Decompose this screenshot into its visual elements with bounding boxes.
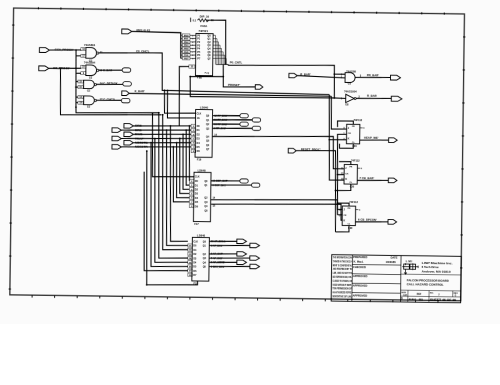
svg-text:7 CB_BAR': 7 CB_BAR' bbox=[359, 176, 374, 180]
wire TRAP' to buffer U3 bbox=[121, 138, 191, 140]
node NDESTR input bbox=[112, 145, 149, 150]
node DRB input bbox=[112, 128, 143, 133]
svg-text:APPROVED: APPROVED bbox=[353, 274, 368, 278]
svg-text:IR41: IR41 bbox=[184, 37, 189, 40]
wire FF1 K input bbox=[329, 95, 348, 140]
svg-text:SHEET 46 OF 46: SHEET 46 OF 46 bbox=[430, 299, 457, 302]
wire FF1 output bbox=[360, 139, 389, 142]
svg-text:APPROVED: APPROVED bbox=[353, 293, 368, 297]
node U3 output connector 0 bbox=[240, 114, 248, 118]
wire bus line B2 bbox=[182, 134, 190, 189]
svg-text:IR43: IR43 bbox=[184, 44, 189, 47]
svg-text:K: K bbox=[345, 178, 347, 181]
wire U3 output 0 bbox=[213, 114, 240, 117]
node 6 CB_DPCON' connector bbox=[388, 220, 397, 225]
junction bus wrap corner bbox=[146, 284, 148, 286]
wire U3 output 3 bbox=[213, 128, 253, 129]
nand U2B 74AS804 bbox=[81, 61, 113, 80]
wire branch to U2D pin 18 bbox=[76, 96, 78, 98]
wire R_BAR' to U6 bbox=[297, 76, 345, 78]
svg-text:CK: CK bbox=[343, 215, 347, 217]
wire branch to U2A pin 12 bbox=[76, 55, 81, 57]
and U6 74AS08 bbox=[341, 69, 362, 85]
svg-text:REF: REF bbox=[417, 294, 422, 296]
wire GC0_PROC0' to U2A input bbox=[50, 49, 82, 52]
title block bbox=[331, 255, 461, 303]
wire bus line A5 bbox=[149, 143, 189, 267]
flip-flop FF1 74F112 bbox=[343, 118, 365, 148]
title block drawing title bbox=[407, 278, 450, 287]
node 7 CB_BAR' connector bbox=[388, 178, 397, 183]
node HEAP_WE' connector bbox=[389, 138, 398, 143]
junction U1 gnd b bbox=[199, 76, 201, 78]
wire bus line A0 bbox=[169, 126, 189, 242]
svg-text:8 AF_OUT': 8 AF_OUT' bbox=[211, 253, 224, 256]
wire bus line B1 bbox=[185, 130, 190, 185]
junction bus wrap top bbox=[146, 150, 148, 152]
svg-text:APPROVED: APPROVED bbox=[353, 284, 368, 288]
wire U3 clock input bbox=[164, 90, 196, 113]
wire bus line A3 bbox=[157, 113, 190, 259]
junction U1 gnd a bbox=[189, 76, 191, 78]
node GC0_PROC0' bbox=[39, 47, 73, 52]
wire branch to U2C pin 15 bbox=[76, 80, 78, 82]
wire U2C output bbox=[96, 83, 123, 86]
wire RP1 to comparator enable bbox=[206, 20, 227, 65]
wire FF1 preset loop bbox=[337, 121, 353, 127]
node U5 output connector 3 bbox=[250, 256, 260, 261]
wire DRB to buffer U3 bbox=[133, 125, 191, 127]
svg-text:7 AF_BK2': 7 AF_BK2' bbox=[211, 257, 223, 260]
wire C0_CHC'L from U2A to bus bbox=[98, 52, 329, 95]
svg-text:6: 6 bbox=[192, 48, 193, 50]
svg-text:D: D bbox=[401, 296, 403, 300]
wire long run from gate column to bus (upper) bbox=[76, 103, 159, 114]
junction at CC_PROC0 wire bbox=[60, 67, 62, 69]
svg-text:F16: F16 bbox=[197, 158, 202, 162]
svg-text:R_BAR: R_BAR bbox=[367, 94, 377, 98]
svg-text:K: K bbox=[343, 219, 345, 222]
flip-flop FF3 74F112 bbox=[339, 200, 361, 230]
wire U3 pin14 to FF2 bbox=[212, 135, 344, 169]
wire clock chain bbox=[336, 134, 346, 215]
wire bus line A1 bbox=[165, 130, 189, 246]
wire branch to U2B pin 9 bbox=[76, 72, 81, 74]
svg-text:11 RF_BK1': 11 RF_BK1' bbox=[214, 119, 228, 122]
node TRAP' input bbox=[112, 136, 144, 141]
wire U5 output 4 bbox=[209, 261, 237, 264]
junction bus B5 bbox=[172, 146, 174, 148]
svg-text:6 AF_WERD': 6 AF_WERD' bbox=[211, 261, 226, 264]
inverter U7 74AS1004 bbox=[341, 89, 361, 107]
wire FF2 output bbox=[357, 179, 388, 182]
wire CC_PROC0' to U2B input bbox=[49, 67, 81, 70]
junction bus A5 bbox=[150, 142, 152, 144]
wire FF3 output bbox=[356, 220, 388, 223]
svg-text:0.1: 0.1 bbox=[193, 18, 197, 22]
nand U2A 74AS804 bbox=[81, 43, 104, 62]
wire U3 output 1 bbox=[213, 119, 253, 120]
node PROSET' connector bbox=[255, 85, 263, 89]
svg-text:DIP_16: DIP_16 bbox=[200, 15, 210, 19]
svg-text:P=Q: P=Q bbox=[205, 73, 210, 75]
svg-text:74F112: 74F112 bbox=[354, 118, 363, 122]
wire U5 output 2 bbox=[209, 253, 237, 256]
wire bus line A4 bbox=[153, 139, 189, 263]
svg-text:HEAP_WE': HEAP_WE' bbox=[364, 136, 379, 140]
wire FF1 clear loop bbox=[339, 144, 353, 149]
wire U2B output bbox=[99, 69, 122, 72]
wire U5 output 0 bbox=[209, 240, 237, 243]
svg-text:PROSET': PROSET' bbox=[228, 83, 241, 87]
node NDESTB input bbox=[124, 140, 149, 145]
svg-text:9: 9 bbox=[192, 58, 193, 60]
svg-text:L M I: L M I bbox=[406, 259, 413, 263]
wire FF3 clock stub bbox=[337, 214, 342, 216]
svg-text:74AS804: 74AS804 bbox=[84, 43, 96, 47]
node PR_BAR' connector bbox=[390, 75, 400, 80]
LMI logo bbox=[402, 259, 418, 274]
svg-text:10 RF_BK2': 10 RF_BK2' bbox=[214, 123, 228, 126]
svg-text:K: K bbox=[348, 138, 350, 141]
wire NDESTR to buffer U3 bbox=[121, 146, 191, 148]
svg-text:74AS804: 74AS804 bbox=[84, 61, 96, 65]
wire FF2 clear loop bbox=[336, 184, 351, 191]
junction bus A0 bbox=[170, 125, 172, 127]
node C_DETASK output connector bbox=[123, 82, 132, 87]
wire U5 output 5 bbox=[209, 266, 250, 267]
wire U2D output bbox=[96, 99, 121, 102]
node U5 output connector 1 bbox=[250, 243, 260, 248]
junction bus B1 bbox=[185, 129, 187, 131]
svg-text:8: 8 bbox=[192, 55, 193, 57]
svg-text:74F112: 74F112 bbox=[351, 158, 360, 162]
wire U4 output 1 bbox=[211, 185, 252, 186]
svg-text:10/30/86: 10/30/86 bbox=[386, 260, 397, 264]
wire U4 pin14 long output bbox=[211, 198, 343, 209]
wire FF2 clock stub bbox=[338, 174, 345, 176]
junction U4 clock tap bbox=[152, 112, 154, 114]
junction bus A2 bbox=[162, 114, 164, 116]
svg-text:REV: REV bbox=[454, 293, 459, 295]
svg-text:3: 3 bbox=[192, 39, 193, 41]
svg-text:P0_CNTL: P0_CNTL bbox=[230, 61, 243, 65]
buffer U3 LS640 bbox=[191, 105, 213, 161]
wire FF2 preset stub bbox=[339, 161, 351, 164]
wire bus wrap to U5 bottom bbox=[145, 151, 199, 285]
nand U2C bbox=[78, 80, 118, 93]
svg-text:IR47: IR47 bbox=[184, 57, 189, 60]
title block size cat no rev bbox=[401, 292, 459, 302]
node CC_PROC0' bbox=[39, 66, 71, 71]
svg-text:CK: CK bbox=[345, 174, 349, 176]
wire U1 gnd drop to run bbox=[189, 77, 192, 97]
svg-text:NO.: NO. bbox=[430, 292, 434, 294]
junction bus B2 bbox=[182, 133, 184, 135]
junction bus A3 bbox=[158, 112, 160, 114]
junction bus B4 bbox=[176, 142, 178, 144]
wire P0_CNTL collect bbox=[216, 63, 228, 65]
node R_BAR' input bbox=[289, 72, 311, 78]
wire U4 clock from bus bbox=[152, 113, 195, 177]
junction U3 clock tap bbox=[164, 89, 166, 91]
node U5 output connector 4 bbox=[237, 260, 247, 265]
junction lower gate column bbox=[75, 106, 77, 108]
wire U2D pin19 feed bbox=[76, 102, 78, 104]
wire U6 output bbox=[355, 76, 390, 79]
junction gate column bottom bbox=[75, 86, 77, 88]
junction clock FF3 pre bbox=[337, 202, 339, 204]
wire U5 output 1 bbox=[209, 245, 250, 246]
nand U2D bbox=[78, 96, 115, 109]
node U4 output connector 1 bbox=[251, 183, 259, 187]
wire U1 ground pins bbox=[190, 75, 223, 77]
node RESET_PROC' bbox=[288, 147, 321, 153]
svg-text:IR42: IR42 bbox=[184, 41, 189, 44]
wire U3 enable input bbox=[167, 90, 196, 118]
wire IR bus to comparator bbox=[131, 31, 181, 58]
junction bus A4 bbox=[154, 138, 156, 140]
wire U4 pin15 long output bbox=[211, 202, 343, 220]
svg-text:1G: 1G bbox=[197, 118, 200, 120]
svg-text:74F112: 74F112 bbox=[349, 200, 358, 204]
wire second long run to bus (lower) bbox=[60, 68, 162, 116]
resistor pack RP1 DIP_16 bbox=[190, 14, 214, 28]
wire U7 output bbox=[356, 97, 391, 100]
wire FF3 preset stub bbox=[338, 203, 350, 206]
wire U3 output 2 bbox=[213, 123, 240, 126]
svg-text:2: 2 bbox=[192, 35, 193, 37]
wire K_BAR' long run bbox=[129, 93, 331, 96]
node U5 output connector 2 bbox=[237, 252, 247, 257]
junction U1 gnd c bbox=[222, 76, 224, 78]
svg-text:74AS1004: 74AS1004 bbox=[344, 89, 357, 93]
svg-text:9 OBF_BK1': 9 OBF_BK1' bbox=[212, 184, 226, 187]
title block proprietary notice bbox=[332, 255, 352, 298]
wire DWB to buffer U3 bbox=[133, 134, 191, 136]
svg-text:Andover, MA 01810: Andover, MA 01810 bbox=[422, 269, 451, 273]
wire long run to U7 input bbox=[191, 96, 335, 98]
junction P0_CNTL tap bbox=[333, 73, 335, 75]
node R_BAR connector bbox=[391, 96, 402, 101]
svg-text:CALL HAZARD CONTROL: CALL HAZARD CONTROL bbox=[407, 282, 444, 286]
wire FF2 K input bbox=[329, 140, 345, 181]
title block signatures bbox=[353, 255, 398, 298]
svg-text:9 AF_BK1': 9 AF_BK1' bbox=[211, 244, 223, 247]
wire bus line B4 bbox=[176, 143, 190, 198]
junction FF1 K branch bbox=[328, 139, 330, 141]
node C_BAR output connector bbox=[122, 68, 131, 73]
node K_BAR' bbox=[122, 89, 145, 96]
node C_CHC'0 output connector bbox=[121, 98, 130, 103]
svg-text:IR44: IR44 bbox=[184, 47, 189, 50]
wire NDESTB to buffer U3 bbox=[133, 142, 191, 144]
svg-text:5: 5 bbox=[192, 45, 193, 47]
svg-text:CLK: CLK bbox=[193, 241, 198, 243]
svg-text:7: 7 bbox=[192, 52, 193, 54]
wire comparator output staircase bbox=[214, 35, 217, 64]
junction U3 enable tap bbox=[167, 90, 169, 92]
svg-text:12 RF_BK0': 12 RF_BK0' bbox=[214, 115, 228, 118]
svg-text:IR45: IR45 bbox=[184, 51, 189, 54]
svg-text:F17: F17 bbox=[194, 222, 199, 226]
svg-text:IR40: IR40 bbox=[184, 34, 189, 37]
svg-text:CAT.: CAT. bbox=[403, 293, 408, 296]
buffer U5 LS640 bbox=[187, 233, 209, 286]
svg-text:CLK: CLK bbox=[195, 176, 200, 178]
svg-text:SENTATIVE OF LMI.: SENTATIVE OF LMI. bbox=[332, 294, 351, 298]
junction bus B0 bbox=[188, 125, 190, 127]
wire RESET_PROC' run bbox=[295, 150, 336, 232]
svg-text:N/A: N/A bbox=[419, 298, 423, 301]
wire inverter input stub bbox=[334, 97, 346, 99]
svg-text:K_BAR': K_BAR' bbox=[134, 89, 145, 93]
wire U5 row 270.7 feed bbox=[143, 172, 189, 272]
svg-text:10 AF_BK0.1: 10 AF_BK0.1 bbox=[211, 240, 226, 243]
junction bus A1 bbox=[166, 129, 168, 131]
wire shared input vertical x=76 bbox=[75, 50, 76, 103]
wire bus line B3 bbox=[179, 138, 190, 193]
svg-text:LS640: LS640 bbox=[197, 233, 206, 237]
junction clock FF2 bbox=[337, 174, 339, 176]
svg-text:DATE: DATE bbox=[391, 256, 398, 260]
svg-text:C0_CHC'L: C0_CHC'L bbox=[136, 49, 150, 53]
junction inverter input bbox=[333, 97, 335, 99]
wire bus line A2 bbox=[161, 115, 190, 250]
svg-text:6 CB_DPCON': 6 CB_DPCON' bbox=[358, 218, 377, 222]
buffer U4 LS640 bbox=[189, 168, 211, 226]
node DRB input bbox=[124, 124, 143, 129]
svg-text:F43A: F43A bbox=[200, 24, 207, 28]
wire DRB to buffer U3 bbox=[121, 129, 191, 131]
flip-flop FF2 74F112 bbox=[341, 158, 363, 188]
wire FF1 J input bbox=[331, 96, 347, 129]
wire U1 left enable pin 10 bbox=[179, 65, 195, 126]
svg-text:IR46: IR46 bbox=[184, 54, 189, 57]
wire U2C pin16 feed bbox=[76, 86, 78, 88]
svg-text:5 BK0_WE1': 5 BK0_WE1' bbox=[211, 265, 225, 268]
node U3 output connector 1 bbox=[252, 118, 260, 122]
wire PROSET' net bbox=[223, 65, 256, 88]
node DWB input bbox=[124, 132, 143, 137]
wire FF3 clear loop bbox=[335, 225, 349, 232]
junction at CC_PROC0 branch bbox=[75, 67, 77, 69]
wire U5 output 3 bbox=[209, 258, 250, 259]
junction reset FF2 bbox=[335, 190, 337, 192]
wire bus line B0 bbox=[189, 126, 191, 181]
svg-text:CLK: CLK bbox=[197, 113, 202, 115]
svg-text:10 OBF_OUT': 10 OBF_OUT' bbox=[213, 180, 229, 183]
svg-text:SCALE: SCALE bbox=[409, 298, 417, 301]
wire P0_CNTL run to gates bbox=[228, 64, 335, 98]
svg-text:74F521: 74F521 bbox=[198, 29, 208, 33]
svg-text:9 RF_BK3': 9 RF_BK3' bbox=[214, 127, 226, 130]
junction bus B3 bbox=[179, 138, 181, 140]
svg-text:CHECKED: CHECKED bbox=[353, 265, 366, 269]
svg-text:PR_BAR': PR_BAR' bbox=[367, 73, 380, 77]
wire bus line B5 bbox=[173, 147, 190, 202]
junction on input vertical bbox=[75, 49, 77, 51]
svg-text:K. MacL: K. MacL bbox=[354, 260, 364, 264]
node U5 output connector 5 bbox=[250, 264, 260, 269]
node IR bus input bbox=[122, 28, 151, 34]
comparator U1 74F521 bbox=[180, 29, 226, 80]
node U4 output connector 0 bbox=[240, 179, 248, 183]
node U3 output connector 2 bbox=[240, 122, 248, 126]
node U3 output connector 3 bbox=[252, 126, 260, 130]
wire U6 input A tap bbox=[334, 73, 345, 75]
svg-text:CK: CK bbox=[348, 133, 352, 135]
title block company address bbox=[422, 261, 453, 274]
wire U4 output 0 bbox=[211, 180, 240, 183]
svg-text:PREPARED: PREPARED bbox=[353, 255, 367, 259]
node U5 output connector 0 bbox=[237, 239, 247, 244]
